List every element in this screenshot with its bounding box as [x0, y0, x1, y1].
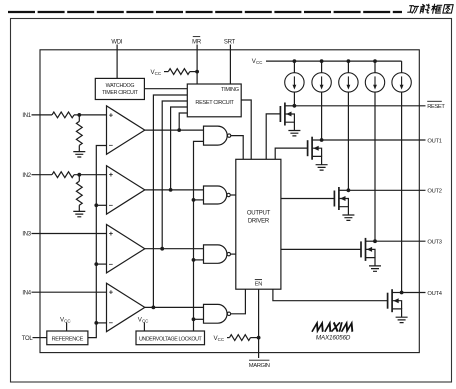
svg-text:IN3: IN3 — [22, 232, 31, 238]
wire MR to reset circuit — [196, 45, 198, 85]
pin label WDI — [111, 39, 122, 45]
current source I4 — [365, 73, 384, 92]
resistor IN1 series — [52, 112, 74, 118]
svg-text:IN1: IN1 — [22, 113, 31, 119]
resistor IN2 to ground — [76, 175, 82, 212]
part number MAX16056D — [316, 334, 351, 341]
pin label IN1 — [22, 113, 31, 119]
svg-text:UNDERVOLTAGE LOCKOUT: UNDERVOLTAGE LOCKOUT — [139, 336, 203, 342]
svg-text:–: – — [109, 141, 113, 150]
wire rail to current source 4 — [374, 61, 376, 73]
wire driver to OUT2 transistor gate — [281, 198, 335, 200]
svg-text:EN: EN — [255, 281, 263, 287]
wire Vcc rail — [266, 60, 402, 62]
wire NAND3 lower input — [194, 259, 204, 261]
ground below IN2 resistor — [73, 211, 85, 216]
node IN1 divider junction — [77, 113, 81, 117]
pin label IN4 — [22, 290, 31, 296]
label EN (active low) — [255, 280, 263, 288]
pin label IN2 — [22, 173, 31, 179]
pin label MR (active low) — [192, 37, 202, 46]
wire driver to OUT1 transistor gate — [275, 148, 307, 159]
svg-text:RESET CIRCUIT: RESET CIRCUIT — [195, 100, 234, 106]
current source I5 — [392, 73, 411, 92]
wire IN2 to input resistor — [32, 174, 53, 176]
wire NAND1 output to output driver — [231, 136, 244, 160]
wire IN3 to comparator + input — [32, 233, 107, 235]
node rail tap 1 — [293, 59, 297, 63]
wire UVLO output bus — [194, 141, 204, 331]
wire comparator 4 output to NAND — [145, 306, 204, 308]
nand gate G1 — [204, 126, 231, 145]
wire IN4 to comparator + input — [32, 291, 107, 293]
svg-text:SRT: SRT — [224, 39, 236, 45]
svg-text:REFERENCE: REFERENCE — [52, 336, 84, 342]
comparator U2 — [107, 166, 145, 214]
ground below Q1 — [288, 131, 300, 136]
svg-text:+: + — [109, 288, 114, 297]
ground below Q5 — [396, 317, 408, 322]
svg-text:–: – — [109, 201, 113, 210]
svg-text:OUTPUT: OUTPUT — [247, 211, 271, 217]
node Q3 drain junction — [347, 188, 351, 192]
resistor IN2 series — [52, 172, 74, 178]
Vcc label for reference — [60, 316, 71, 323]
resistor MR pullup — [164, 69, 197, 75]
svg-text:VCC: VCC — [151, 69, 162, 76]
svg-text:IN4: IN4 — [22, 290, 31, 296]
wire comparator 2 output to NAND — [145, 189, 204, 191]
node Q1 drain junction — [293, 104, 297, 108]
transistor Q5 (OUT4) — [388, 289, 402, 317]
node comparator 3 output junction — [160, 247, 164, 251]
wire comp3 - input tap — [96, 263, 106, 265]
svg-text:VCC: VCC — [138, 316, 149, 323]
wire comparator 1 feedback to reset circuit — [179, 113, 187, 130]
title 功能框图 (functional block diagram) — [408, 4, 454, 13]
node comp2 - tap — [94, 203, 98, 207]
wire comparator 3 feedback to reset circuit — [162, 101, 187, 249]
wire IN1 to input resistor — [32, 114, 53, 116]
comparator U4 — [107, 283, 145, 331]
wire rail to current source 5 — [401, 61, 403, 73]
node Q5 drain junction — [400, 291, 404, 295]
output driver block — [236, 159, 281, 289]
ground below Q2 — [316, 165, 328, 170]
node NAND3 lower input tap — [192, 258, 196, 262]
nand gate G3 — [204, 245, 231, 263]
wire NAND3 output to output driver — [231, 253, 236, 255]
node comparator 2 output junction — [169, 188, 173, 192]
diagram outer frame — [40, 50, 419, 353]
wire OUT2 line — [348, 189, 425, 191]
node MR pullup junction — [195, 70, 199, 74]
wire driver to OUT4 transistor gate — [273, 289, 388, 301]
wire rail to current source 3 — [347, 61, 349, 73]
wire comparator 3 output to NAND — [145, 248, 204, 250]
wire current source 3 to drain — [347, 92, 349, 190]
Vcc label for MR pullup — [151, 69, 162, 76]
svg-text:TIMER CIRCUIT: TIMER CIRCUIT — [102, 90, 139, 96]
node Q4 drain junction — [373, 239, 377, 243]
pin label OUT3 — [427, 240, 441, 246]
wire resistor to comparator + input — [74, 114, 107, 116]
wire Vcc to UVLO box — [143, 323, 145, 332]
svg-text:IN2: IN2 — [22, 173, 31, 179]
svg-text:DRIVER: DRIVER — [248, 218, 270, 224]
wire SRT to reset circuit — [229, 45, 231, 85]
wire TOL to reference box — [33, 337, 47, 339]
reference block — [47, 331, 88, 345]
pin label OUT2 — [427, 189, 441, 195]
pin label OUT4 — [427, 291, 442, 297]
svg-text:RESET: RESET — [427, 104, 445, 110]
MAXIM logo — [313, 323, 355, 331]
nand gate G4 — [204, 304, 231, 323]
node rail tap 3 — [347, 59, 351, 63]
svg-text:VCC: VCC — [252, 58, 263, 65]
svg-text:OUT2: OUT2 — [427, 189, 441, 195]
watchdog timer circuit U-WD — [95, 78, 144, 99]
wire rail to current source 2 — [321, 61, 323, 73]
node rail tap 2 — [320, 59, 324, 63]
wire OUT4 line — [402, 292, 426, 294]
wire driver to RESET transistor gate — [266, 114, 280, 159]
wire WDI to watchdog box — [116, 45, 118, 79]
wire driver to OUT3 transistor gate — [281, 248, 361, 250]
pin label SRT — [224, 39, 236, 45]
wire EN to MARGIN pin — [258, 289, 260, 358]
current source I2 — [312, 73, 331, 92]
wire NAND2 lower input — [194, 199, 204, 201]
node Q2 drain junction — [320, 138, 324, 142]
transistor Q1 (RESET) — [280, 103, 294, 131]
pin label RESET (active low) — [427, 101, 445, 110]
wire resistor to comparator + input — [74, 174, 107, 176]
svg-text:OUT4: OUT4 — [427, 291, 442, 297]
svg-text:WATCHDOG: WATCHDOG — [106, 83, 135, 89]
resistor MARGIN pullup — [227, 335, 259, 341]
node NAND4 lower input tap — [192, 317, 196, 321]
wire comparator 4 feedback to reset circuit — [153, 95, 187, 307]
node comparator 4 output junction — [152, 306, 156, 310]
svg-text:–: – — [109, 318, 113, 327]
svg-text:TOL: TOL — [22, 336, 34, 342]
svg-text:–: – — [109, 259, 113, 268]
wire comparator 1 output to NAND — [145, 129, 204, 131]
wire current source 5 to drain — [401, 92, 403, 292]
undervoltage lockout block — [136, 331, 205, 345]
wire current source 2 to drain — [321, 92, 323, 140]
wire rail to current source 1 — [293, 61, 295, 73]
svg-text:TIMING: TIMING — [221, 87, 239, 93]
transistor Q2 (OUT1) — [308, 137, 322, 165]
svg-text:MARGIN: MARGIN — [249, 363, 270, 369]
Vcc label for MARGIN pullup — [214, 335, 225, 342]
current source I1 — [285, 73, 304, 92]
wire reference bus — [88, 146, 107, 338]
svg-text:VCC: VCC — [60, 316, 71, 323]
node rail tap 4 — [373, 59, 377, 63]
wire RESET line — [294, 105, 425, 107]
pin label OUT1 — [427, 138, 441, 144]
Vcc label for UVLO — [138, 316, 149, 323]
wire reset circuit output to output driver — [241, 100, 251, 159]
svg-text:OUT1: OUT1 — [427, 138, 441, 144]
wire watchdog to reset circuit — [144, 88, 187, 90]
node comp3 - tap — [94, 262, 98, 266]
reset circuit / timing block — [187, 84, 241, 117]
wire comparator 2 feedback to reset circuit — [171, 107, 188, 190]
wire current source 4 to drain — [374, 92, 376, 241]
wire OUT1 line — [322, 139, 426, 141]
node comparator 1 output junction — [177, 128, 181, 132]
wire comp2 - input tap — [96, 204, 106, 206]
comparator U3 — [107, 225, 145, 273]
node NAND2 lower input tap — [192, 198, 196, 202]
nand gate G2 — [204, 186, 231, 204]
wire NAND2 output to output driver — [231, 194, 236, 196]
svg-text:+: + — [109, 170, 114, 179]
page top dashed rule — [8, 11, 402, 13]
ground below Q3 — [342, 215, 354, 220]
svg-text:VCC: VCC — [214, 335, 225, 342]
transistor Q4 (OUT3) — [361, 238, 375, 266]
resistor IN1 to ground — [76, 115, 82, 152]
svg-text:+: + — [109, 110, 114, 119]
svg-text:MAX16056D: MAX16056D — [316, 334, 351, 341]
Vcc label for rail — [252, 58, 263, 65]
node MARGIN pullup junction — [257, 336, 261, 340]
svg-text:OUT3: OUT3 — [427, 240, 441, 246]
wire Vcc to reference box — [66, 323, 68, 332]
comparator U1 — [107, 106, 145, 154]
svg-text:+: + — [109, 229, 114, 238]
pin label MARGIN (active low) — [249, 360, 270, 369]
pin label TOL — [22, 336, 34, 342]
wire comp4 - input tap — [96, 322, 106, 324]
current source I3 — [339, 73, 358, 92]
node IN2 divider junction — [77, 173, 81, 177]
pin label IN3 — [22, 232, 31, 238]
wire NAND4 output to output driver — [231, 289, 246, 314]
wire NAND4 lower input — [194, 318, 204, 320]
wire current source 1 to drain — [293, 92, 295, 106]
wire OUT3 line — [375, 240, 426, 242]
node comp4 - tap — [94, 321, 98, 325]
transistor Q3 (OUT2) — [334, 187, 348, 215]
ground below Q4 — [369, 266, 381, 271]
ground below IN1 resistor — [73, 152, 85, 157]
